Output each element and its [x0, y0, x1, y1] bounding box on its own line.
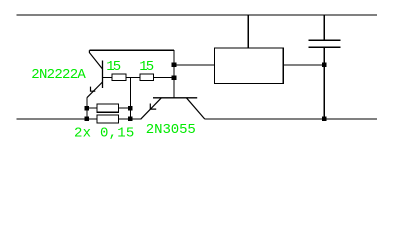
junction rail / R4 left: [85, 117, 90, 122]
wire Q1 emitter column: [86, 98, 88, 119]
resistor R3 value 0,15: [97, 104, 119, 112]
junction output node upper: [322, 63, 327, 68]
junction rail / R4 right: [128, 117, 133, 122]
resistor R1 value 15: [112, 74, 126, 80]
wire U1 right to output column: [283, 64, 324, 66]
junction node A upper: [172, 63, 177, 68]
transistor Q1 emitter arrow: [91, 87, 96, 92]
wire mid-resistor drop to R3/R4 right node: [129, 78, 131, 119]
transistor Q2 emitter lead: [141, 98, 162, 119]
wire capacitor top lead: [323, 15, 325, 41]
transistor Q1 2N2222A base bar: [102, 61, 104, 89]
junction Q1 emitter / R3 left: [85, 106, 90, 111]
svg-text:2x 0,15: 2x 0,15: [74, 126, 134, 142]
svg-text:2N2222A: 2N2222A: [31, 67, 86, 83]
wire node A vertical (Q2 base column): [173, 50, 175, 98]
wire bottom rail left segment: [17, 118, 98, 120]
transistor Q2 emitter arrow: [150, 104, 156, 110]
wire bottom rail right segment: [204, 118, 377, 120]
resistor R2 value 15: [140, 74, 154, 80]
wire Q1 collector top run: [89, 49, 174, 51]
wire Q1 base to R1: [103, 77, 113, 79]
wire U1 left to node A: [174, 64, 214, 66]
wire top supply rail: [17, 14, 378, 16]
svg-text:15: 15: [106, 59, 121, 75]
wire bottom rail to Q2 emitter: [119, 118, 142, 120]
junction node A lower: [172, 75, 177, 80]
resistor R4 value 0,15: [97, 115, 119, 123]
svg-text:2N3055: 2N3055: [146, 122, 196, 138]
junction output node rail: [322, 117, 327, 122]
op-amp U1 regulator box: [214, 48, 283, 84]
junction R3 right: [128, 106, 133, 111]
svg-text:15: 15: [139, 59, 154, 75]
transistor Q2 collector lead: [186, 98, 204, 119]
transistor Q1 emitter lead: [87, 82, 103, 98]
wire emitter node to R3: [87, 107, 97, 109]
transistor Q1 collector lead: [89, 50, 102, 69]
wire R3 to right node: [119, 107, 131, 109]
wire R1 to R2: [126, 77, 140, 79]
capacitor C1: [309, 40, 341, 47]
wire capacitor bottom lead / output column: [323, 47, 325, 119]
wire R2 to node A column: [154, 77, 175, 79]
wire regulator input drop: [247, 15, 249, 48]
transistor Q2 2N3055 base bar: [153, 97, 197, 99]
